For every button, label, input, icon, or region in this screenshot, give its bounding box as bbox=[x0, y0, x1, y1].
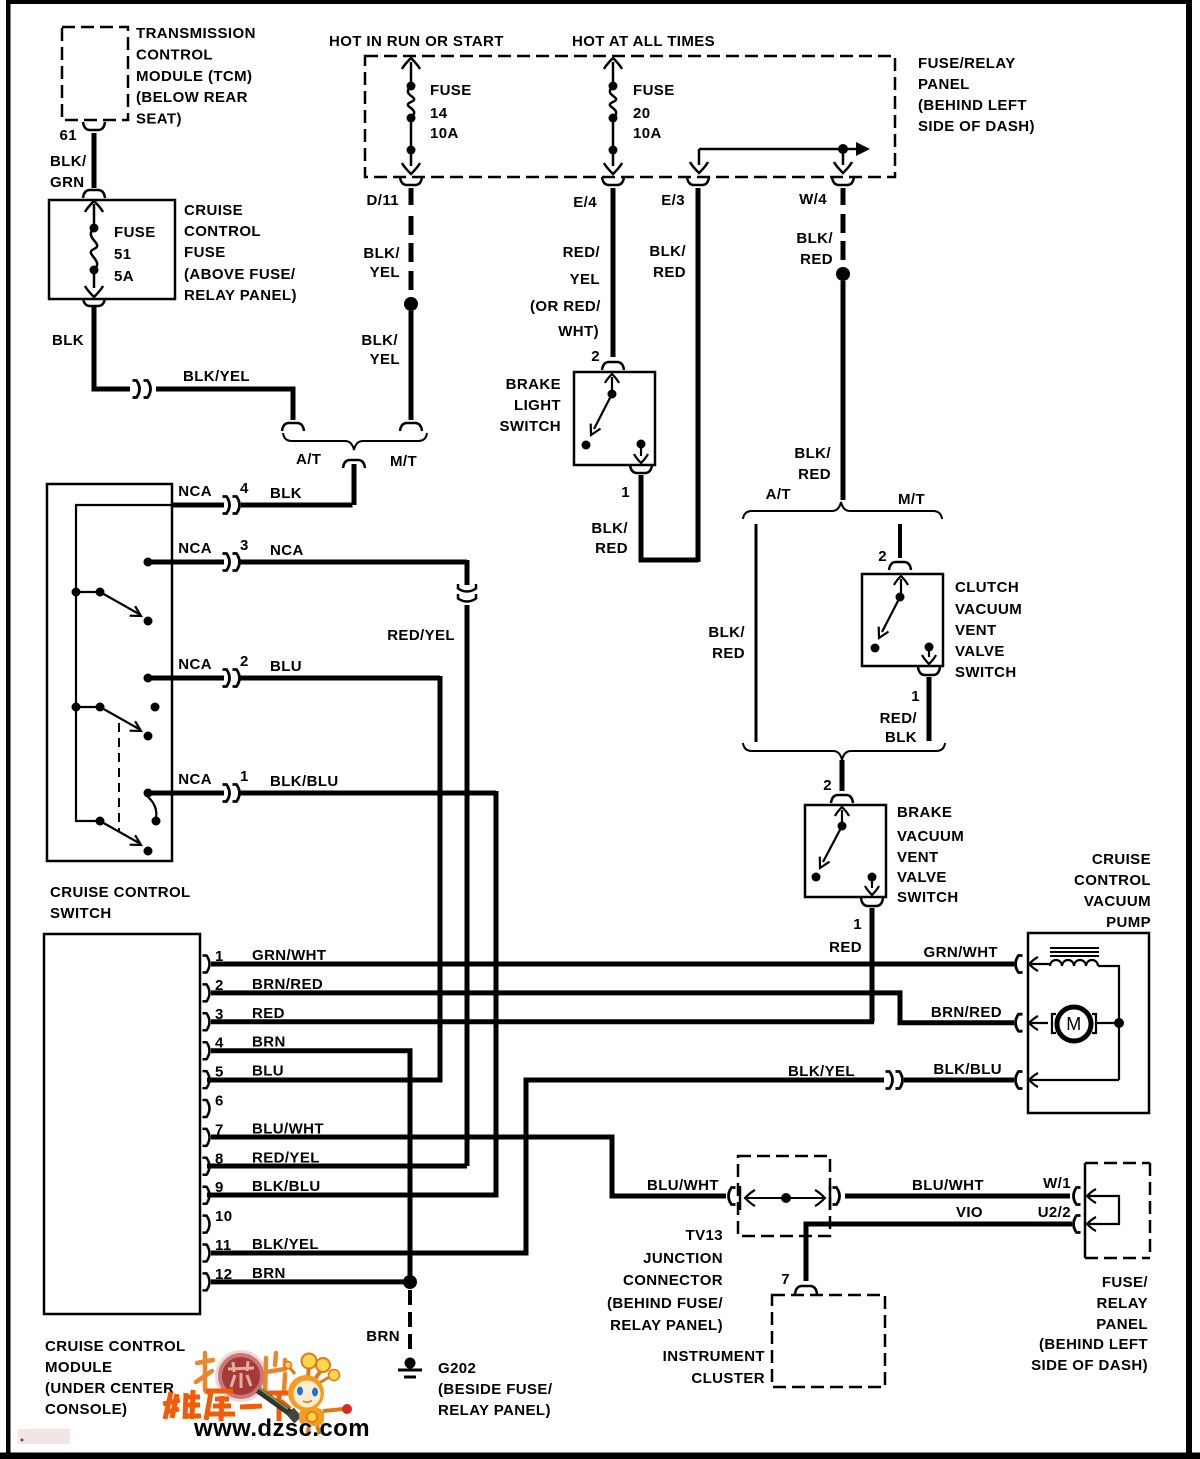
cap under brace bbox=[343, 460, 365, 468]
connector socket below fuse box bbox=[83, 298, 105, 306]
svg-text:VALVE: VALVE bbox=[897, 869, 947, 886]
svg-text:RED: RED bbox=[252, 1005, 285, 1022]
module pin 2 (BRN/RED) bbox=[203, 976, 324, 1002]
cruise control switch box bbox=[47, 484, 191, 922]
end cap A/T side bbox=[282, 423, 304, 431]
cruise control fuse box bbox=[49, 200, 297, 304]
connector E/3 bbox=[661, 177, 709, 209]
svg-text:RED: RED bbox=[712, 645, 745, 662]
module pin 4 (BRN) bbox=[203, 1034, 286, 1060]
svg-text:YEL: YEL bbox=[370, 351, 400, 368]
svg-text:BLK/: BLK/ bbox=[363, 245, 400, 262]
module pin 6 (n/c) bbox=[203, 1093, 224, 1118]
wire BLU/WHT module pin7 to TV13 bbox=[211, 1137, 726, 1196]
svg-text:HOT AT ALL TIMES: HOT AT ALL TIMES bbox=[572, 33, 715, 50]
transmission control module (TCM) box bbox=[62, 25, 256, 128]
svg-text:CLUTCH: CLUTCH bbox=[955, 579, 1019, 596]
wire RED/BLK clutch switch to brace bbox=[880, 677, 929, 746]
svg-text:CONTROL: CONTROL bbox=[1074, 872, 1151, 889]
svg-text:FUSE/RELAY: FUSE/RELAY bbox=[918, 55, 1016, 72]
svg-text:TRANSMISSION: TRANSMISSION bbox=[136, 25, 256, 42]
svg-text:BLK/: BLK/ bbox=[708, 624, 745, 641]
svg-text:D/11: D/11 bbox=[367, 192, 399, 209]
svg-text:10A: 10A bbox=[430, 125, 459, 142]
svg-text:(OR RED/: (OR RED/ bbox=[530, 298, 601, 315]
svg-text:BLU/WHT: BLU/WHT bbox=[912, 1177, 984, 1194]
wire BLK/RED from W/4 (dashed) bbox=[796, 188, 843, 268]
svg-text:BRN: BRN bbox=[252, 1265, 286, 1282]
pump connector BRN/RED input bbox=[1016, 1014, 1049, 1031]
module pin 9 (BLK/BLU) bbox=[203, 1178, 321, 1204]
wire BRN/RED module pin2 to pump bbox=[211, 993, 1014, 1023]
svg-text:RED/YEL: RED/YEL bbox=[387, 627, 455, 644]
svg-text:U2/2: U2/2 bbox=[1038, 1204, 1071, 1221]
svg-text:HOT IN RUN OR START: HOT IN RUN OR START bbox=[329, 33, 504, 50]
svg-text:M/T: M/T bbox=[390, 453, 417, 470]
svg-text:BLK/BLU: BLK/BLU bbox=[933, 1061, 1002, 1078]
module pin 7 (BLU/WHT) bbox=[203, 1120, 324, 1146]
svg-text:BLK/BLU: BLK/BLU bbox=[270, 773, 339, 790]
svg-text:SIDE OF DASH): SIDE OF DASH) bbox=[918, 118, 1035, 135]
svg-text:9: 9 bbox=[215, 1179, 224, 1196]
svg-text:2: 2 bbox=[591, 348, 600, 365]
svg-text:BLK/: BLK/ bbox=[361, 332, 398, 349]
brace A/T-M/T clutch select bbox=[743, 486, 942, 519]
svg-text:A/T: A/T bbox=[766, 486, 791, 503]
module pin 12 (BRN) bbox=[203, 1265, 286, 1291]
svg-text:VENT: VENT bbox=[897, 849, 939, 866]
connector below clutch switch pin 1 bbox=[911, 667, 940, 705]
wire BLK / BLK-YEL from fuse to A-T brace bbox=[52, 306, 293, 420]
svg-text:BLK: BLK bbox=[52, 332, 84, 349]
svg-text:NCA: NCA bbox=[178, 483, 212, 500]
wire BRN module pin4 to ground junction bbox=[211, 1051, 410, 1280]
connector E/4 bbox=[573, 177, 624, 211]
svg-text:W/4: W/4 bbox=[799, 191, 827, 208]
pump solenoid coil bbox=[1050, 948, 1119, 1080]
svg-text:NCA: NCA bbox=[178, 540, 212, 557]
svg-text:MODULE: MODULE bbox=[45, 1359, 112, 1376]
svg-text:BLK/YEL: BLK/YEL bbox=[252, 1236, 319, 1253]
wire BLK/YEL from D/11 (dashed then solid) bbox=[363, 188, 411, 290]
svg-text:BLK/YEL: BLK/YEL bbox=[183, 368, 250, 385]
svg-text:PUMP: PUMP bbox=[1106, 914, 1151, 931]
cruise switch contact set 3 bbox=[96, 789, 173, 856]
svg-text:RED/YEL: RED/YEL bbox=[252, 1149, 320, 1166]
switch pin 2 row bbox=[172, 653, 440, 687]
panel internal jumper W/1 to U2/2 bbox=[1089, 1196, 1119, 1224]
connector D/11 bbox=[367, 177, 422, 209]
svg-text:BLK/: BLK/ bbox=[796, 230, 833, 247]
brake vacuum switch contacts bbox=[812, 807, 880, 895]
svg-text:(BEHIND LEFT: (BEHIND LEFT bbox=[918, 97, 1027, 114]
mechanical link (dashed) bbox=[118, 723, 120, 831]
wire RED/YEL switch pin 3 to module row 8 bbox=[207, 560, 476, 1166]
svg-text:20: 20 bbox=[633, 105, 651, 122]
pump motor M bbox=[1052, 1007, 1124, 1041]
svg-text:10: 10 bbox=[215, 1208, 233, 1225]
svg-text:SWITCH: SWITCH bbox=[499, 418, 561, 435]
brace gather to brake vacuum switch bbox=[743, 743, 945, 760]
svg-text:FUSE: FUSE bbox=[114, 224, 156, 241]
svg-text:BRN: BRN bbox=[252, 1034, 286, 1051]
svg-text:CRUISE CONTROL: CRUISE CONTROL bbox=[45, 1338, 186, 1355]
svg-text:RED/: RED/ bbox=[563, 244, 601, 261]
svg-text:BRN: BRN bbox=[366, 1328, 400, 1345]
svg-text:VACUUM: VACUUM bbox=[897, 828, 964, 845]
svg-text:RED: RED bbox=[800, 251, 833, 268]
svg-text:SEAT): SEAT) bbox=[136, 111, 182, 128]
svg-text:MODULE (TCM): MODULE (TCM) bbox=[136, 68, 252, 85]
svg-text:CLUSTER: CLUSTER bbox=[691, 1370, 765, 1387]
in-line connector on BLK/YEL wire bbox=[133, 381, 151, 398]
pin 7 instrument cluster bbox=[781, 1271, 817, 1294]
svg-text:SIDE OF DASH): SIDE OF DASH) bbox=[1031, 1357, 1148, 1374]
wire RED module pin3 bbox=[211, 1019, 874, 1024]
wire BLK/RED lower segment bbox=[794, 281, 843, 500]
wire BLU/WHT TV13 to fuse/relay panel W/1 bbox=[845, 1175, 1071, 1196]
module pin 8 (RED/YEL) bbox=[203, 1149, 320, 1175]
wire BLU switch pin 2 to module row 5 bbox=[207, 676, 440, 1080]
svg-text:W/1: W/1 bbox=[1043, 1175, 1071, 1192]
wire BLK/RED E/3 drop bbox=[649, 188, 698, 562]
svg-text:3: 3 bbox=[240, 537, 249, 554]
svg-text:CRUISE CONTROL: CRUISE CONTROL bbox=[50, 884, 191, 901]
svg-text:NCA: NCA bbox=[178, 771, 212, 788]
end cap M/T side bbox=[400, 423, 422, 431]
svg-text:INSTRUMENT: INSTRUMENT bbox=[663, 1348, 765, 1365]
cruise switch inner bus bbox=[76, 505, 172, 821]
wire VIO U2/2 to instrument cluster bbox=[806, 1204, 1072, 1281]
svg-text:JUNCTION: JUNCTION bbox=[643, 1250, 723, 1267]
panel bus wire to E/3 and W/4 bbox=[690, 142, 870, 173]
svg-text:GRN/WHT: GRN/WHT bbox=[252, 947, 326, 964]
fuse/relay panel box bbox=[365, 55, 1035, 177]
svg-text:2: 2 bbox=[823, 777, 832, 794]
svg-text:1: 1 bbox=[853, 916, 862, 933]
connector below brake light switch pin 1 bbox=[621, 465, 652, 501]
switch pin 1 row bbox=[172, 768, 496, 802]
svg-text:14: 14 bbox=[430, 105, 448, 122]
svg-text:VACUUM: VACUUM bbox=[955, 601, 1022, 618]
wire RED/YEL E/4 to brake light switch bbox=[530, 188, 613, 357]
module pin 5 (BLU) bbox=[203, 1063, 285, 1089]
wire M/T branch to clutch switch pin 2 bbox=[878, 524, 911, 570]
svg-text:E/3: E/3 bbox=[661, 192, 685, 209]
svg-text:BRN/RED: BRN/RED bbox=[931, 1004, 1002, 1021]
brace A/T-M/T transmission select bbox=[283, 433, 427, 470]
svg-text:FUSE: FUSE bbox=[184, 244, 226, 261]
pin 2 brake light switch bbox=[591, 348, 624, 370]
feed label HOT AT ALL TIMES bbox=[572, 33, 715, 50]
splice on BLK/YEL bbox=[404, 297, 418, 311]
svg-text:SWITCH: SWITCH bbox=[955, 664, 1017, 681]
svg-text:10A: 10A bbox=[633, 125, 662, 142]
brake light switch box bbox=[499, 372, 655, 465]
svg-text:BRAKE: BRAKE bbox=[506, 376, 561, 393]
svg-text:CONTROL: CONTROL bbox=[184, 223, 261, 240]
connector W/4 bbox=[799, 177, 854, 208]
wire BLK/YEL module pin11 to pump BLK/BLU bbox=[211, 1061, 1014, 1253]
svg-text:2: 2 bbox=[240, 653, 249, 670]
svg-text:TV13: TV13 bbox=[686, 1227, 723, 1244]
wire BRN to ground G202 (dashed) bbox=[366, 1290, 410, 1356]
svg-text:E/4: E/4 bbox=[573, 194, 597, 211]
wire BLK/YEL lower segment bbox=[361, 311, 411, 420]
svg-text:(BEHIND LEFT: (BEHIND LEFT bbox=[1039, 1336, 1148, 1353]
svg-text:RELAY PANEL): RELAY PANEL) bbox=[184, 287, 297, 304]
svg-text:(ABOVE FUSE/: (ABOVE FUSE/ bbox=[184, 266, 296, 283]
wire RED brake vacuum switch to module row 3 bbox=[829, 908, 872, 1022]
watermark dzsc logo bbox=[163, 1352, 370, 1442]
module pin 1 (GRN/WHT) bbox=[203, 947, 327, 973]
TV13 junction connector box bbox=[607, 1156, 830, 1334]
svg-text:(UNDER CENTER: (UNDER CENTER bbox=[45, 1380, 174, 1397]
connector cap above fuse box bbox=[83, 190, 105, 198]
svg-text:BLK: BLK bbox=[270, 485, 302, 502]
svg-text:CONNECTOR: CONNECTOR bbox=[623, 1272, 723, 1289]
svg-text:BLU: BLU bbox=[252, 1063, 284, 1080]
cruise control vacuum pump box bbox=[1028, 851, 1151, 1113]
svg-text:G202: G202 bbox=[438, 1360, 476, 1377]
svg-text:GRN: GRN bbox=[50, 174, 85, 191]
svg-text:SWITCH: SWITCH bbox=[50, 905, 112, 922]
wire brace to cruise switch pin 4 bbox=[241, 464, 354, 505]
svg-text:RED: RED bbox=[653, 264, 686, 281]
svg-text:WHT): WHT) bbox=[558, 323, 599, 340]
module pin 3 (RED) bbox=[203, 1005, 285, 1031]
svg-text:FUSE/: FUSE/ bbox=[1102, 1274, 1149, 1291]
svg-text:CONTROL: CONTROL bbox=[136, 47, 213, 64]
scan artifact bottom left bbox=[18, 1429, 70, 1444]
svg-text:NCA: NCA bbox=[178, 656, 212, 673]
cruise switch contact set 1 bbox=[72, 558, 173, 626]
fuse 14 10A bbox=[402, 58, 472, 174]
svg-text:RED: RED bbox=[595, 540, 628, 557]
wire BRN module pin12 bbox=[211, 1279, 410, 1284]
wire BLK/GRN TCM-61 to cruise fuse bbox=[50, 133, 94, 191]
svg-text:4: 4 bbox=[240, 480, 249, 497]
svg-text:M/T: M/T bbox=[898, 491, 925, 508]
svg-text:NCA: NCA bbox=[270, 542, 304, 559]
svg-text:BRAKE: BRAKE bbox=[897, 804, 952, 821]
svg-text:BLK/: BLK/ bbox=[649, 243, 686, 260]
fuse/relay panel box (bottom right) bbox=[1031, 1163, 1150, 1374]
svg-text:RELAY: RELAY bbox=[1097, 1295, 1148, 1312]
svg-text:RED: RED bbox=[798, 466, 831, 483]
cruise control module box bbox=[44, 934, 200, 1418]
TV13 connector symbol bbox=[729, 1186, 840, 1210]
connector socket below TCM bbox=[83, 122, 105, 130]
svg-text:7: 7 bbox=[781, 1271, 790, 1288]
splice BRN junction bbox=[403, 1275, 417, 1289]
fuse 20 10A bbox=[604, 58, 675, 174]
svg-text:VACUUM: VACUUM bbox=[1084, 893, 1151, 910]
svg-text:(BELOW REAR: (BELOW REAR bbox=[136, 89, 248, 106]
svg-text:RED/: RED/ bbox=[880, 710, 918, 727]
svg-text:6: 6 bbox=[215, 1093, 224, 1110]
svg-text:YEL: YEL bbox=[370, 264, 400, 281]
svg-text:BLK: BLK bbox=[885, 729, 917, 746]
feed label HOT IN RUN OR START bbox=[329, 33, 504, 50]
pump connector BLK/BLU input bbox=[1016, 1072, 1120, 1089]
svg-text:PANEL: PANEL bbox=[918, 76, 970, 93]
switch pin 3 row bbox=[172, 537, 467, 571]
svg-text:FUSE: FUSE bbox=[633, 82, 675, 99]
svg-text:5A: 5A bbox=[114, 268, 134, 285]
svg-text:YEL: YEL bbox=[570, 271, 600, 288]
svg-text:(BESIDE FUSE/: (BESIDE FUSE/ bbox=[438, 1381, 553, 1398]
in-line connector BLK/YEL to BLK/BLU bbox=[886, 1072, 903, 1089]
svg-text:1: 1 bbox=[911, 688, 920, 705]
svg-text:BLK/: BLK/ bbox=[50, 153, 87, 170]
svg-text:A/T: A/T bbox=[296, 451, 321, 468]
svg-text:BLK/: BLK/ bbox=[591, 520, 628, 537]
cruise switch contact set 2 bbox=[72, 674, 173, 741]
wire BLK/BLU switch pin 1 to module row 9 bbox=[207, 791, 496, 1195]
switch pin 4 row bbox=[172, 480, 302, 514]
svg-text:1: 1 bbox=[240, 768, 249, 785]
svg-text:CRUISE: CRUISE bbox=[184, 202, 243, 219]
svg-text:RELAY PANEL): RELAY PANEL) bbox=[610, 1317, 723, 1334]
svg-text:5: 5 bbox=[215, 1064, 224, 1081]
wire BLK/RED brake light switch to E/3 bbox=[591, 475, 698, 560]
clutch switch contacts bbox=[871, 576, 937, 664]
wire brace to brake vacuum switch pin 2 bbox=[823, 760, 853, 803]
svg-text:2: 2 bbox=[878, 548, 887, 565]
module pin 10 (n/c) bbox=[203, 1208, 233, 1233]
svg-text:61: 61 bbox=[60, 127, 78, 144]
svg-text:GRN/WHT: GRN/WHT bbox=[924, 944, 998, 961]
svg-text:(BEHIND FUSE/: (BEHIND FUSE/ bbox=[607, 1295, 723, 1312]
pin 61 label bbox=[60, 127, 78, 144]
svg-text:VIO: VIO bbox=[956, 1204, 983, 1221]
svg-text:RED: RED bbox=[829, 939, 862, 956]
svg-text:VENT: VENT bbox=[955, 622, 997, 639]
svg-text:SWITCH: SWITCH bbox=[897, 889, 959, 906]
svg-text:1: 1 bbox=[621, 484, 630, 501]
svg-text:51: 51 bbox=[114, 246, 132, 263]
svg-text:BLK/YEL: BLK/YEL bbox=[788, 1063, 855, 1080]
svg-text:FUSE: FUSE bbox=[430, 82, 472, 99]
svg-text:BRN/RED: BRN/RED bbox=[252, 976, 323, 993]
clutch vacuum vent valve switch box bbox=[862, 574, 1022, 681]
pump connector GRN/WHT input bbox=[1016, 956, 1051, 973]
svg-text:VALVE: VALVE bbox=[955, 643, 1005, 660]
fuse 51 5A symbol bbox=[85, 201, 156, 297]
connector U2/2 bbox=[1038, 1204, 1096, 1233]
instrument cluster box bbox=[663, 1295, 885, 1387]
svg-text:BLU: BLU bbox=[270, 658, 302, 675]
connector W/1 bbox=[1074, 1188, 1097, 1205]
svg-text:RELAY PANEL): RELAY PANEL) bbox=[438, 1402, 551, 1419]
svg-text:PANEL: PANEL bbox=[1096, 1316, 1148, 1333]
ground G202 bbox=[398, 1358, 553, 1420]
svg-text:BLK/: BLK/ bbox=[794, 445, 831, 462]
connector below brake vacuum switch pin 1 bbox=[853, 898, 883, 933]
svg-text:BLU/WHT: BLU/WHT bbox=[647, 1177, 719, 1194]
svg-text:www.dzsc.com: www.dzsc.com bbox=[193, 1415, 370, 1442]
module pin 11 (BLK/YEL) bbox=[203, 1236, 319, 1262]
brake light switch contacts bbox=[582, 374, 649, 463]
splice on BLK/RED bbox=[836, 267, 850, 281]
svg-text:LIGHT: LIGHT bbox=[514, 397, 561, 414]
svg-text:CONSOLE): CONSOLE) bbox=[45, 1401, 127, 1418]
brake vacuum vent valve switch box bbox=[805, 804, 964, 906]
svg-text:8: 8 bbox=[215, 1150, 224, 1167]
svg-text:M: M bbox=[1066, 1014, 1081, 1034]
svg-text:CRUISE: CRUISE bbox=[1092, 851, 1151, 868]
svg-text:BLK/BLU: BLK/BLU bbox=[252, 1178, 321, 1195]
wire GRN/WHT module pin1 to pump bbox=[211, 944, 1014, 964]
wire BLK/RED A/T branch bbox=[708, 524, 756, 742]
